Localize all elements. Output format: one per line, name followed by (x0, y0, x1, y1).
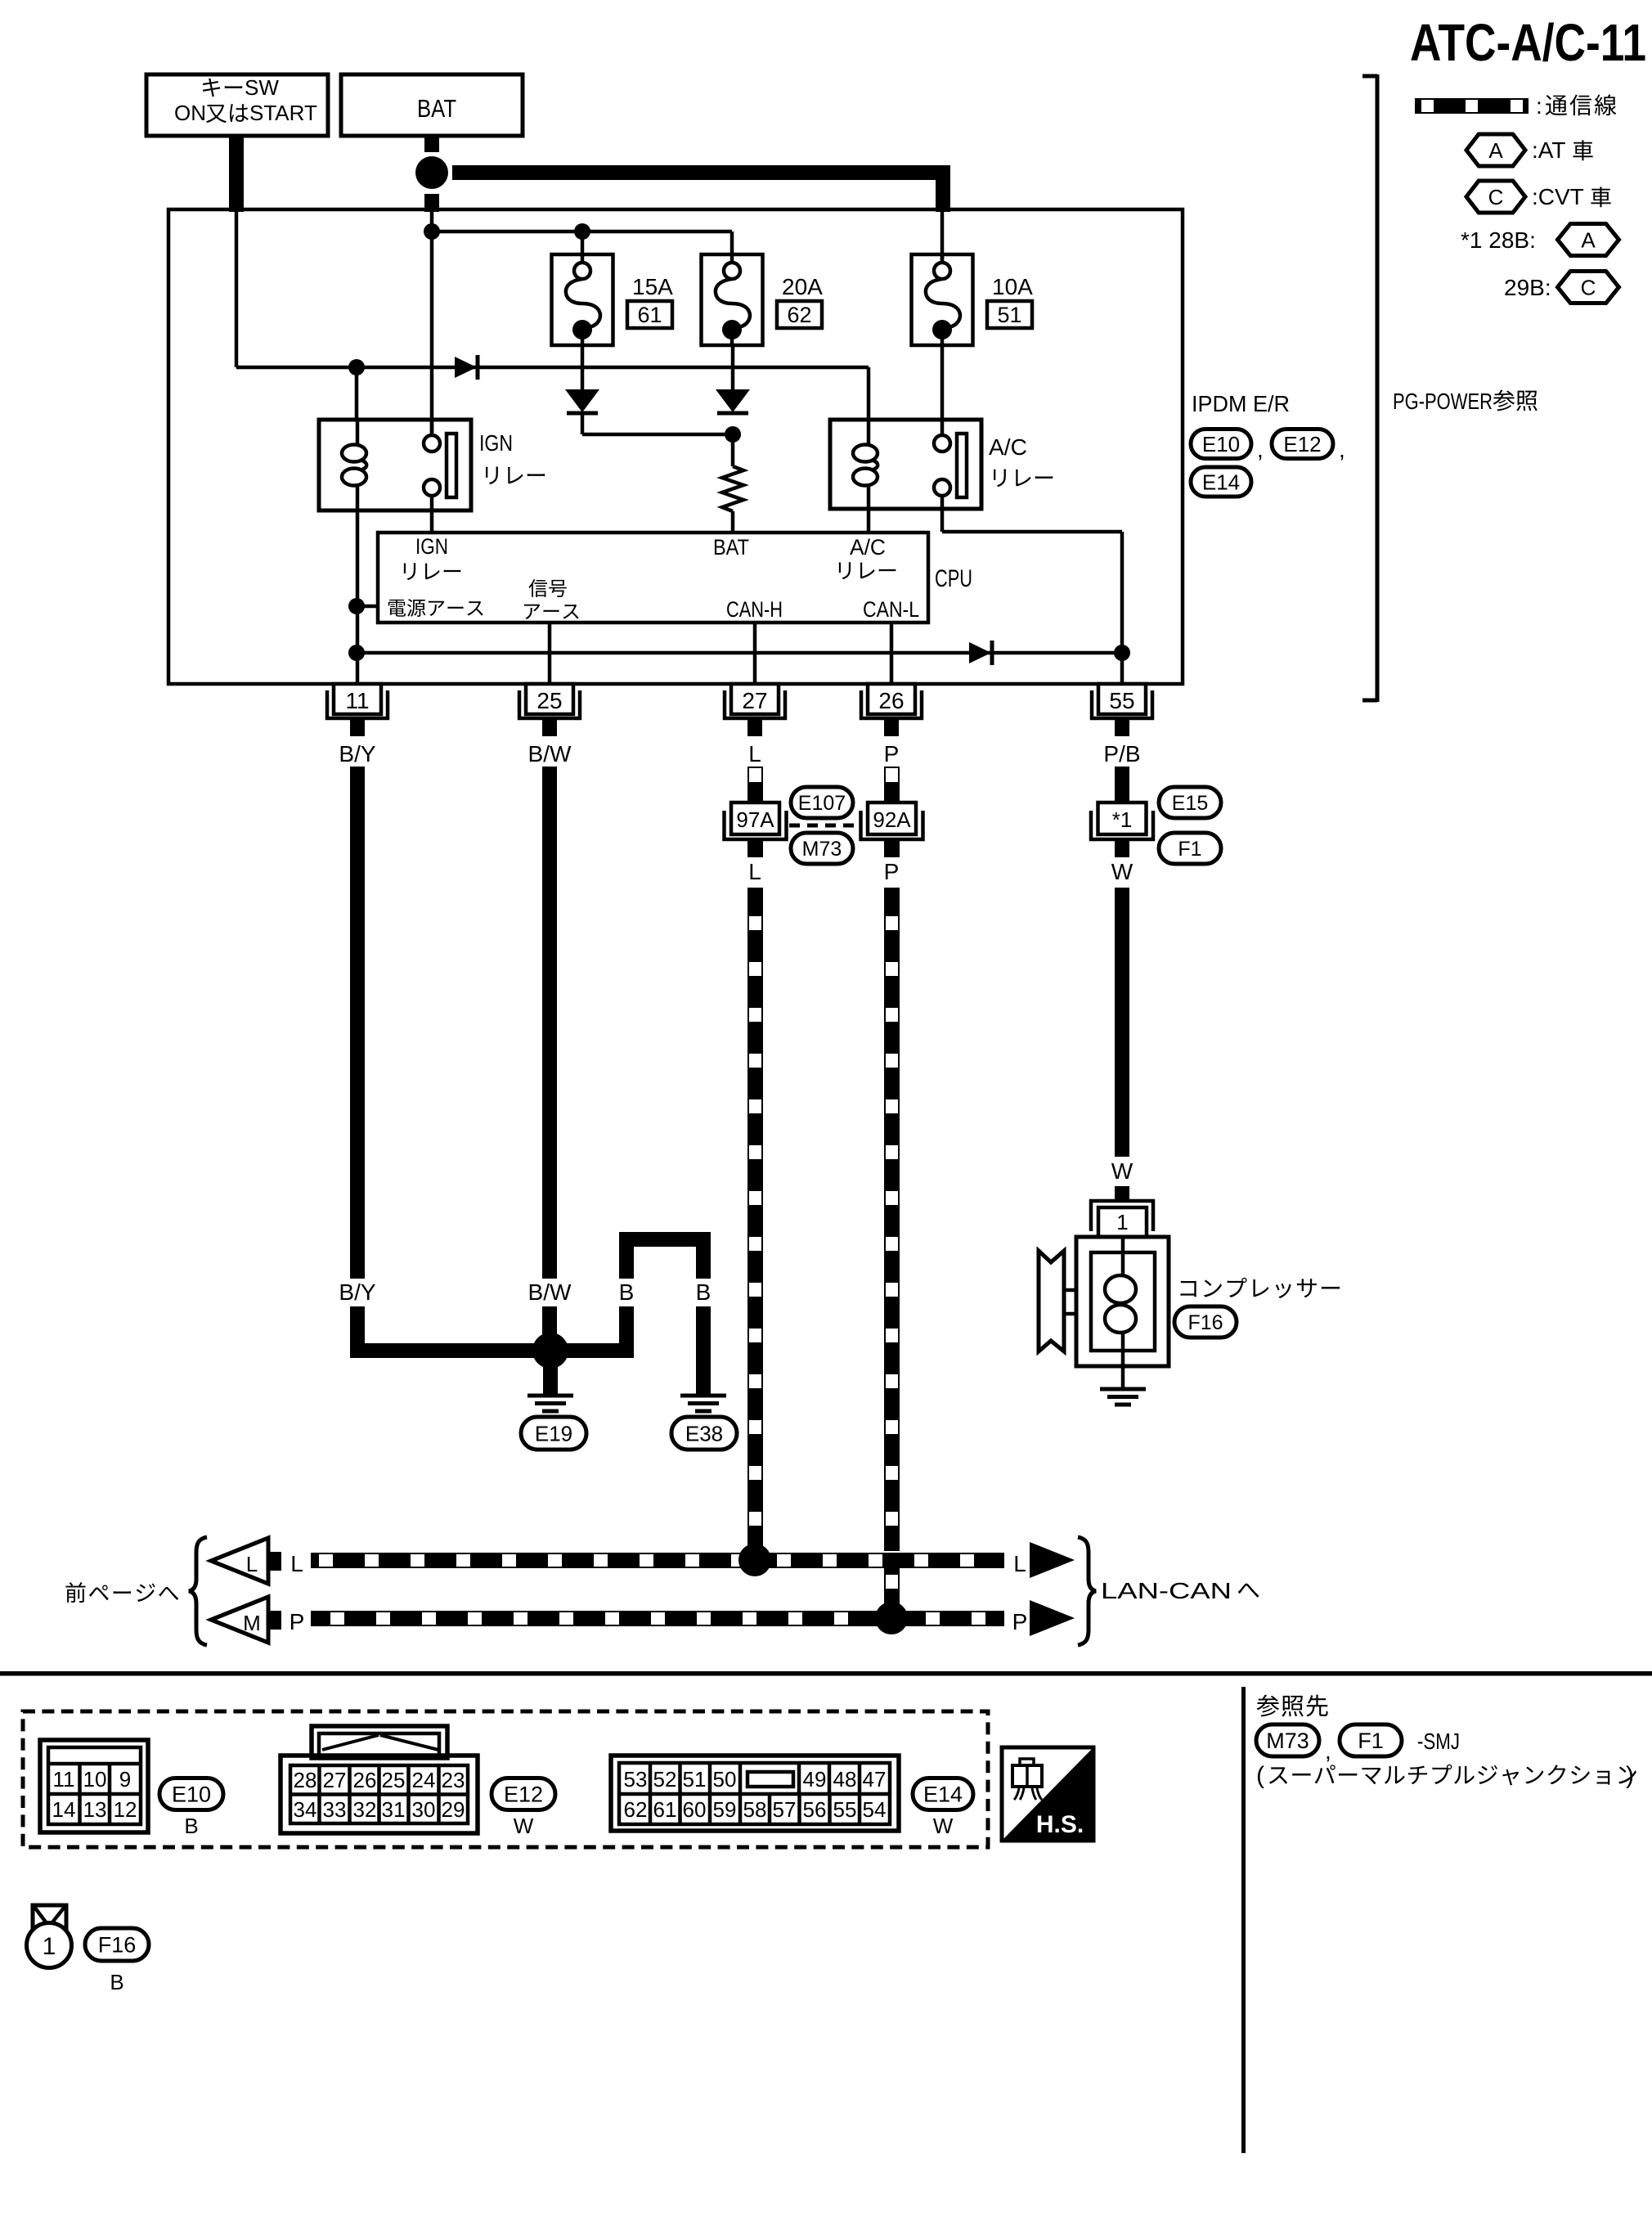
ground E19 (527, 1394, 573, 1398)
svg-text:F16: F16 (98, 1933, 137, 1958)
reference column line (1241, 1687, 1246, 2153)
wire IGN relay coil to ground bus (356, 510, 360, 684)
node dot diodes junction (725, 426, 741, 443)
connector ref M73 (791, 833, 853, 864)
svg-text:,: , (1325, 1738, 1331, 1764)
diode D4 (on y798 wire) (969, 642, 991, 663)
svg-text:M73: M73 (1266, 1729, 1309, 1753)
svg-text:25: 25 (536, 688, 562, 713)
wire B loop (thick) (619, 1247, 634, 1279)
svg-text:47: 47 (863, 1767, 887, 1792)
svg-text:28: 28 (294, 1768, 317, 1792)
compressor pulley (1039, 1251, 1064, 1351)
svg-text:E12: E12 (504, 1783, 543, 1807)
label 参照先 (1257, 1695, 1280, 1717)
svg-text:CAN-H: CAN-H (726, 597, 783, 622)
svg-text:P/B: P/B (1103, 741, 1140, 767)
svg-text:E14: E14 (923, 1783, 963, 1807)
wire CAN-H L (striped) (747, 767, 763, 803)
svg-text:60: 60 (683, 1797, 707, 1822)
wire BAT down stub (424, 136, 439, 152)
connector 97A (731, 803, 779, 834)
svg-text:25: 25 (382, 1768, 406, 1792)
connector ref F1 (SMJ) (1340, 1724, 1402, 1756)
wire keySW internal down (235, 211, 239, 367)
wire CAN-L P (striped) (884, 767, 900, 803)
svg-text:10: 10 (83, 1767, 107, 1792)
wire D2 to node (581, 413, 585, 434)
svg-text:57: 57 (773, 1797, 797, 1822)
legend communication-line sample (1415, 98, 1529, 114)
connector E14 pinout (611, 1756, 899, 1831)
svg-text:B: B (619, 1279, 635, 1305)
connector ref E12 (1272, 429, 1333, 459)
wire fuse2 to diode D3 (731, 345, 735, 389)
svg-text:A/C: A/C (989, 434, 1027, 460)
svg-text:L: L (290, 1551, 303, 1576)
wire to ground E19 (543, 1365, 558, 1394)
svg-text:E14: E14 (1202, 470, 1240, 494)
svg-text:*1: *1 (1112, 807, 1133, 832)
svg-text:59: 59 (713, 1797, 737, 1822)
svg-text:ON: ON (174, 101, 206, 125)
wire A/C relay coil to CPU (867, 509, 871, 533)
arrow P to LAN-CAN (1030, 1600, 1075, 1636)
svg-text:CPU: CPU (935, 565, 972, 592)
svg-text:*1 28B:: *1 28B: (1461, 227, 1536, 253)
legend hexagon C (CVT車) (1466, 181, 1525, 213)
svg-text:P: P (1012, 1609, 1028, 1634)
relay IGN (coil + contact) (319, 420, 471, 510)
CPU box (378, 533, 928, 623)
svg-text:H.S.: H.S. (1036, 1811, 1084, 1838)
wire horizontal y283 fuse feeds (432, 230, 732, 234)
node dot 電源アース tap (348, 598, 365, 614)
svg-text:E10: E10 (1202, 432, 1240, 456)
wire IGN relay contact to CPU (430, 510, 434, 533)
resistor R1 (722, 466, 743, 511)
svg-text:B/W: B/W (528, 1279, 572, 1305)
svg-text:C: C (1581, 275, 1596, 299)
svg-text:B: B (184, 1814, 198, 1838)
legend hexagon A (AT車) (1466, 134, 1525, 166)
svg-text:26: 26 (353, 1768, 377, 1792)
fuse F2 20A/62 (702, 254, 763, 345)
svg-text:51: 51 (997, 303, 1021, 327)
diode D1 (on y449 wire) (455, 357, 477, 378)
svg-text:C: C (1488, 185, 1504, 209)
svg-text:L: L (246, 1552, 258, 1576)
fuse F1 15A/61 (552, 254, 613, 345)
wire IGN coil feed down (355, 367, 359, 420)
svg-text::AT: :AT (1532, 137, 1565, 163)
svg-text:IPDM E/R: IPDM E/R (1192, 391, 1290, 416)
block キーSW ON又はSTART (146, 74, 328, 136)
svg-text:10A: 10A (992, 274, 1033, 299)
svg-text:B/Y: B/Y (339, 1279, 375, 1305)
wire B/Y horizontal to ground node (350, 1343, 634, 1358)
svg-text:E12: E12 (1283, 432, 1321, 456)
svg-text:11: 11 (345, 688, 369, 713)
svg-text:E10: E10 (172, 1783, 211, 1807)
connector ref F1 (1159, 833, 1221, 864)
node dot P bus junction (875, 1602, 908, 1634)
wire B/W (thick) (542, 767, 557, 1279)
node BAT junction dot (415, 156, 448, 189)
svg-text:12: 12 (114, 1797, 137, 1822)
svg-text:ATC-A/C-11: ATC-A/C-11 (1410, 13, 1646, 72)
dashed connector-view box (23, 1711, 988, 1847)
right brace (1078, 1537, 1096, 1645)
svg-text:LAN-CAN: LAN-CAN (1101, 1578, 1232, 1603)
svg-text:55: 55 (1109, 688, 1134, 713)
svg-text:49: 49 (803, 1767, 827, 1792)
wire BAT internal down (430, 211, 434, 435)
connector ref E14 (1191, 467, 1251, 497)
svg-text:W: W (514, 1814, 534, 1838)
svg-text:W: W (1111, 859, 1134, 884)
svg-text:-SMJ: -SMJ (1417, 1729, 1460, 1754)
svg-text:F1: F1 (1358, 1729, 1384, 1753)
svg-text:F16: F16 (1187, 1311, 1223, 1334)
relay A/C (coil + contact) (830, 345, 981, 509)
svg-text:15A: 15A (632, 274, 673, 299)
svg-text:IGN: IGN (415, 534, 448, 559)
svg-text:B: B (696, 1279, 712, 1305)
svg-text:52: 52 (653, 1767, 677, 1792)
wire BAT bus right (thick) (452, 165, 950, 180)
svg-text::: : (1536, 93, 1542, 119)
connector ref F16 (1174, 1306, 1237, 1338)
svg-text:55: 55 (833, 1797, 857, 1822)
wire resistor to CPU BAT (731, 511, 735, 533)
svg-text:A: A (1488, 138, 1503, 163)
svg-text:P: P (884, 859, 900, 884)
IPDM E/R enclosure box (168, 209, 1183, 684)
diode D3 (below 20A fuse, pointing down) (716, 389, 750, 412)
svg-text:B: B (110, 1970, 123, 1994)
pin 11 (334, 684, 381, 714)
svg-text:62: 62 (624, 1797, 648, 1822)
svg-text:20A: 20A (782, 274, 823, 299)
legend bracket (1376, 74, 1380, 702)
svg-text:START: START (249, 101, 317, 125)
node dot BAT internal (424, 223, 440, 240)
svg-text:E107: E107 (798, 792, 846, 815)
compressor ground (1121, 1366, 1125, 1387)
separator line (0, 1671, 1652, 1676)
wire P/B (thick) (1115, 767, 1129, 803)
node dot IGN coil tap (348, 359, 365, 375)
svg-text:1: 1 (1116, 1210, 1128, 1234)
svg-text:26: 26 (878, 688, 904, 713)
H.S. symbol (1002, 1747, 1093, 1841)
node dot L bus junction (738, 1544, 771, 1576)
svg-text:27: 27 (742, 688, 767, 713)
triangle connector M (from prev page) (211, 1597, 268, 1643)
connector ref E15 (1159, 787, 1221, 818)
svg-text:L: L (1013, 1551, 1026, 1576)
svg-text:53: 53 (624, 1767, 648, 1792)
svg-text:M73: M73 (802, 838, 842, 861)
ground E38 (680, 1394, 726, 1398)
node dot pin55 branch (1114, 645, 1130, 661)
connector E12 pinout (281, 1726, 478, 1833)
svg-text:9: 9 (119, 1767, 131, 1792)
svg-text:27: 27 (323, 1768, 347, 1792)
svg-text:13: 13 (83, 1797, 107, 1822)
wire CAN-L long (striped) (884, 888, 900, 1551)
svg-text:CAN-L: CAN-L (863, 597, 919, 622)
connector ref E10 (1191, 429, 1251, 459)
svg-text:B/W: B/W (528, 741, 572, 767)
node dot fuse1 tap (574, 223, 590, 240)
svg-text:E38: E38 (685, 1421, 723, 1445)
svg-text:29: 29 (442, 1797, 465, 1822)
wire CAN-H to pin 27 (753, 623, 757, 684)
wire fuse1 to diode D2 (581, 345, 585, 389)
svg-text:32: 32 (353, 1797, 377, 1822)
wire A/C contact to pin 55 (940, 509, 945, 532)
svg-text:BAT: BAT (417, 94, 456, 123)
wire horizontal y798 with diode (357, 651, 1122, 655)
compressor F16 (1076, 1237, 1169, 1366)
svg-text:14: 14 (52, 1797, 76, 1822)
connector E10 pinout (40, 1740, 148, 1832)
fuse F3 10A/51 (912, 254, 973, 345)
wire 信号アース to pin 25 (548, 623, 552, 684)
svg-text:24: 24 (412, 1768, 436, 1792)
wire 10A fuse feed (940, 211, 945, 263)
CAN P bus (striped) (311, 1611, 1004, 1626)
label 前ページへ (65, 1582, 85, 1603)
svg-text:97A: 97A (736, 807, 774, 832)
wire elbow down to 10A fuse (thick) (936, 165, 950, 212)
wire horizontal y449 to A/C relay coil (236, 366, 869, 370)
svg-text:E19: E19 (535, 1421, 572, 1445)
node dot y798 tap (348, 645, 365, 661)
svg-text:,: , (1339, 437, 1345, 462)
svg-text:A/C: A/C (850, 535, 886, 560)
svg-text:M: M (243, 1611, 261, 1635)
svg-text:): ) (1626, 1762, 1634, 1789)
svg-text:A: A (1581, 227, 1596, 252)
svg-text:BAT: BAT (713, 535, 749, 560)
svg-text:W: W (933, 1814, 954, 1838)
svg-text:P: P (290, 1609, 305, 1634)
node ground junction dot (532, 1333, 568, 1369)
svg-text:W: W (1111, 1158, 1134, 1184)
triangle connector L (from prev page) (211, 1538, 268, 1584)
svg-text:34: 34 (294, 1797, 317, 1822)
svg-text:61: 61 (637, 303, 662, 327)
svg-text:L: L (748, 859, 761, 884)
svg-text:30: 30 (412, 1797, 436, 1822)
svg-text:1: 1 (43, 1933, 56, 1960)
pin 25 (526, 684, 573, 714)
diode D2 (below 15A fuse, pointing down) (565, 389, 599, 412)
wire W down (thick) (1115, 888, 1129, 1157)
svg-text:58: 58 (743, 1797, 767, 1822)
svg-text:11: 11 (53, 1767, 75, 1792)
connector ref E107 (791, 787, 853, 818)
svg-text:29B:: 29B: (1504, 275, 1551, 300)
arrow L to LAN-CAN (1030, 1542, 1075, 1578)
svg-text:F1: F1 (1178, 838, 1201, 861)
pin 26 (868, 684, 915, 714)
svg-text:54: 54 (863, 1797, 887, 1822)
svg-text:31: 31 (382, 1797, 406, 1822)
svg-text:61: 61 (653, 1797, 677, 1822)
wire CAN-H long (striped) (747, 888, 763, 1553)
svg-text:51: 51 (683, 1767, 707, 1792)
svg-text:48: 48 (833, 1767, 857, 1792)
svg-text::CVT: :CVT (1532, 184, 1584, 209)
block BAT (341, 74, 523, 136)
svg-text:B/Y: B/Y (339, 741, 375, 767)
connector *1 (1098, 803, 1147, 834)
wire node to resistor (731, 434, 735, 466)
svg-text:P: P (884, 741, 900, 767)
connector F16 pinout (27, 1905, 72, 1968)
connector ref M73 (SMJ) (1256, 1724, 1319, 1756)
svg-text:PG-POWER: PG-POWER (1393, 389, 1493, 414)
pin 27 (731, 684, 779, 714)
svg-text:62: 62 (787, 303, 811, 327)
label コンプレッサー (1180, 1281, 1196, 1297)
svg-text:92A: 92A (873, 807, 911, 832)
svg-text:23: 23 (442, 1768, 465, 1792)
svg-text:IGN: IGN (479, 430, 513, 456)
svg-text:33: 33 (323, 1797, 347, 1822)
left brace (189, 1537, 207, 1645)
svg-text:50: 50 (713, 1767, 737, 1792)
connector 92A (868, 803, 916, 834)
svg-text:E15: E15 (1172, 792, 1208, 815)
pin 55 (1098, 684, 1146, 714)
wire キーSW down (thick) (229, 136, 244, 212)
dashed link to E107/M73 (789, 824, 857, 828)
wire BAT to IPDM (thick) (424, 194, 439, 212)
CAN L bus (striped) (311, 1553, 1004, 1568)
wire CAN-L to pin 26 (890, 623, 894, 684)
compressor pin 1 connector (1091, 1201, 1153, 1231)
svg-text:L: L (748, 741, 761, 767)
svg-text:SW: SW (245, 75, 279, 100)
svg-text:,: , (1257, 437, 1264, 462)
svg-text:56: 56 (803, 1797, 827, 1822)
svg-text:(: ( (1256, 1762, 1264, 1789)
wire B/Y (thick) (350, 767, 365, 1279)
